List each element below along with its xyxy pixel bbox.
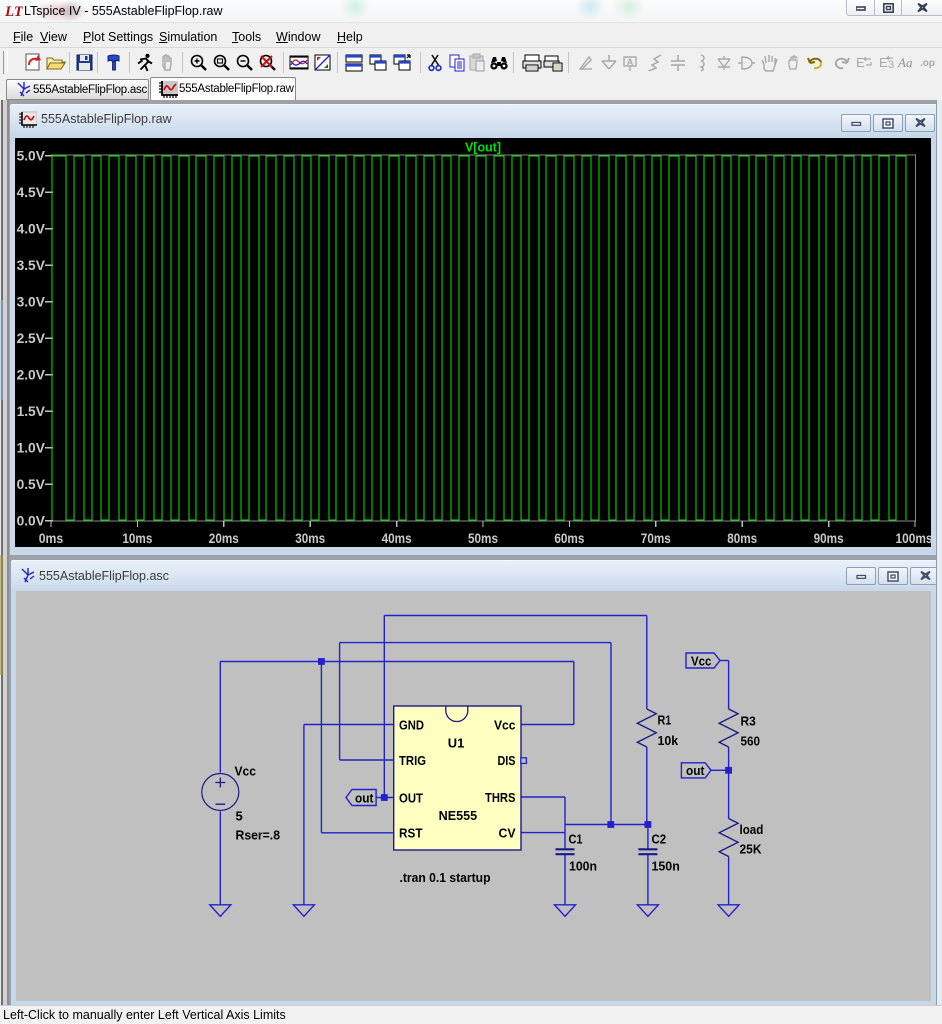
wire R1 bottom to node [646, 747, 648, 825]
menu bar [0, 22, 942, 48]
svg-text:50ms: 50ms [468, 530, 498, 546]
svg-text:V[out]: V[out] [465, 141, 501, 155]
svg-text:5.0V: 5.0V [17, 148, 46, 164]
node junction OUT [381, 794, 388, 801]
svg-text:2.5V: 2.5V [17, 330, 46, 346]
svg-text:40ms: 40ms [382, 530, 412, 546]
svg-text:10k: 10k [658, 733, 679, 748]
svg-text:THRS: THRS [485, 790, 516, 805]
svg-text:E: E [856, 55, 865, 70]
svg-text:out: out [686, 763, 705, 778]
ground under C1 [555, 905, 576, 917]
svg-text:R3: R3 [741, 714, 756, 729]
svg-text:10ms: 10ms [122, 530, 152, 546]
svg-text:1.0V: 1.0V [17, 440, 46, 456]
resistor load [719, 819, 738, 857]
wire Vcc flag stub [720, 660, 729, 662]
wire RST branch vertical [320, 662, 322, 833]
wire GND down to ground [303, 725, 305, 905]
svg-text:R1: R1 [658, 713, 672, 728]
black plot client [15, 138, 931, 547]
svg-text:E: E [879, 55, 888, 70]
net flag out (left, at OUT pin) [346, 790, 376, 806]
svg-text:U1: U1 [448, 736, 465, 751]
svg-text:NE555: NE555 [439, 808, 478, 823]
svg-text:LT: LT [5, 4, 23, 19]
wire to RST pin [321, 832, 393, 834]
grid box [51, 155, 915, 521]
wire node horizontal C1-C2 [565, 824, 648, 826]
resistor R1 [637, 709, 656, 747]
svg-text:out: out [355, 791, 374, 806]
toolbar [0, 47, 942, 78]
wire out flag to OUT pin [376, 797, 394, 799]
wire C2 bottom stem [647, 855, 649, 905]
op-amp U1 NE555 body [394, 706, 521, 850]
net flag Vcc (right column) [686, 653, 720, 668]
y ticks [45, 156, 915, 527]
svg-text:1.5V: 1.5V [17, 403, 46, 419]
trace V(out) [52, 156, 906, 520]
node junction TRIG/caps [607, 821, 614, 828]
wire out flag stub right [711, 769, 729, 771]
wire THRS down to C1 [564, 797, 566, 849]
svg-text:GND: GND [399, 718, 424, 733]
schematic child window [10, 559, 938, 1008]
pin DIS open terminal [521, 758, 527, 764]
wire THRS horizontal [521, 796, 565, 798]
svg-text:OUT: OUT [399, 790, 423, 805]
wire source top stem [219, 662, 221, 773]
svg-text:.tran 0.1 startup: .tran 0.1 startup [400, 870, 491, 885]
svg-text:A: A [627, 57, 634, 67]
ground under C2 [637, 905, 658, 917]
svg-text:0ms: 0ms [39, 530, 64, 546]
svg-text:4.5V: 4.5V [17, 184, 46, 200]
wire C2 top stem [647, 825, 649, 849]
svg-text:Vcc: Vcc [691, 653, 711, 668]
svg-text:0.0V: 0.0V [17, 513, 46, 529]
svg-text:100n: 100n [569, 859, 597, 874]
svg-text:100ms: 100ms [896, 530, 932, 546]
svg-text:.op: .op [920, 58, 935, 69]
ground under V1 [210, 905, 231, 917]
wire source bottom stem [219, 812, 221, 905]
wire GND pin horizontal [304, 724, 394, 726]
svg-text:3.0V: 3.0V [17, 294, 46, 310]
wire TRIG net down to cap node [610, 643, 612, 825]
wire C1 bottom stem [564, 855, 566, 905]
svg-text:3: 3 [888, 59, 894, 71]
wire R3 to load [728, 747, 730, 819]
title bar [0, 0, 942, 22]
capacitor C1 [556, 849, 575, 854]
svg-text:150n: 150n [652, 859, 680, 874]
svg-text:90ms: 90ms [814, 530, 844, 546]
wire OUT net top horizontal [384, 615, 647, 617]
svg-text:80ms: 80ms [727, 530, 757, 546]
svg-text:5: 5 [236, 809, 243, 824]
svg-text:DIS: DIS [498, 753, 516, 768]
right window border [936, 100, 942, 1005]
svg-text:C1: C1 [569, 831, 583, 846]
wire Vcc flag down to R3 [728, 661, 730, 710]
svg-text:load: load [740, 822, 764, 837]
wire OUT vertical [383, 616, 385, 798]
svg-text:2.0V: 2.0V [17, 367, 46, 383]
schematic canvas [16, 591, 931, 1001]
net flag out (right column) [681, 763, 711, 778]
svg-text:3.5V: 3.5V [17, 257, 46, 273]
svg-text:60ms: 60ms [554, 530, 584, 546]
wire OUT net down to R1 [646, 616, 648, 710]
wire TRIG net vertical left [339, 643, 341, 760]
svg-text:TRIG: TRIG [399, 753, 426, 768]
svg-text:Rser=.8: Rser=.8 [236, 828, 281, 843]
ground GND net [293, 905, 314, 917]
left window border [0, 100, 1, 1005]
wire load bottom stem [728, 857, 730, 905]
wire to Vcc pin [521, 724, 574, 726]
svg-text:70ms: 70ms [641, 530, 671, 546]
resistor R3 [719, 709, 738, 747]
svg-text:CV: CV [499, 826, 516, 841]
status bar [0, 1005, 942, 1024]
node junction R1/C2 [645, 821, 652, 828]
wire Vcc net down [573, 662, 575, 725]
wire Vcc net horizontal [220, 661, 574, 663]
svg-text:560: 560 [741, 733, 761, 748]
wire to TRIG pin [340, 759, 394, 761]
svg-text:Vcc: Vcc [235, 764, 256, 779]
node junction out/R3/load [725, 767, 732, 774]
node junction Vcc/RST [318, 658, 325, 665]
svg-text:25K: 25K [740, 842, 763, 857]
tab bar [0, 77, 942, 100]
svg-text:Vcc: Vcc [494, 718, 516, 733]
svg-text:Aa: Aa [897, 55, 913, 70]
capacitor C2 [638, 849, 657, 854]
svg-text:20ms: 20ms [209, 530, 239, 546]
wire TRIG net horizontal [340, 642, 611, 644]
waveform child window [9, 103, 938, 556]
svg-text:C2: C2 [652, 831, 667, 846]
ground under load [718, 905, 739, 917]
voltage source V1 Vcc [202, 774, 239, 811]
svg-text:RST: RST [399, 826, 423, 841]
svg-text:30ms: 30ms [295, 530, 325, 546]
svg-text:0.5V: 0.5V [17, 476, 46, 492]
svg-text:4.0V: 4.0V [17, 221, 46, 237]
wire CV horizontal [521, 832, 565, 834]
